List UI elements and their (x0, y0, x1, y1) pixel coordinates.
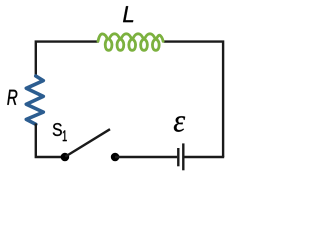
wire top (36, 42, 99, 77)
wire bottom middle (115, 156, 177, 158)
wire left lower (36, 124, 62, 158)
label EMF epsilon (script e) (174, 116, 185, 132)
inductor L (coil) (98, 34, 163, 51)
label S1 (53, 123, 62, 136)
label L (123, 6, 133, 22)
wire top-right (164, 42, 224, 157)
switch S1 left contact dot (61, 153, 70, 162)
battery EMF source: positive plate (tall) (182, 143, 184, 170)
switch S1 blade (65, 129, 110, 156)
resistor R (zigzag) (26, 76, 43, 124)
battery EMF source: negative plate (short) (177, 148, 179, 166)
switch S1 right contact dot (111, 153, 120, 162)
label R (7, 90, 17, 105)
wire bottom right (184, 156, 224, 158)
